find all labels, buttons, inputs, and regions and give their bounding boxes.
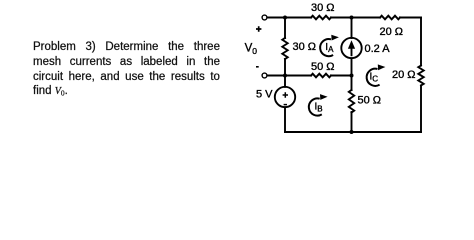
wire current source bottom lead: [351, 58, 353, 75]
svg-text:20 Ω: 20 Ω: [392, 69, 416, 81]
terminal Vo minus: [262, 73, 267, 78]
terminal Vo plus: [262, 15, 267, 20]
svg-text:0.2 A: 0.2 A: [365, 43, 391, 55]
svg-text:IC: IC: [370, 71, 379, 83]
problem statement text: [33, 41, 220, 100]
wire middle branch lower upper lead: [351, 76, 353, 91]
svg-text:30 Ω: 30 Ω: [293, 41, 317, 53]
svg-text:V0: V0: [245, 43, 258, 56]
svg-text:30 Ω: 30 Ω: [311, 2, 335, 14]
wire left branch upper: [284, 18, 286, 39]
mesh current IB arrow: [309, 94, 328, 115]
wire current source top lead: [351, 18, 353, 39]
resistor 30ohm top horizontal: [311, 16, 331, 20]
label 5V source plus: [283, 92, 288, 97]
svg-text:IA: IA: [325, 42, 334, 54]
node junction top-left: [283, 16, 287, 20]
wire top rail middle segment: [331, 17, 380, 19]
svg-text:IB: IB: [315, 102, 323, 114]
node junction bottom-middle: [350, 130, 354, 134]
label minus terminal: [256, 66, 259, 68]
current source I1 0.2A circle: [341, 38, 361, 58]
wire 5V source top lead: [284, 76, 286, 87]
wire right branch lower: [420, 86, 422, 133]
svg-text:50 Ω: 50 Ω: [311, 61, 335, 73]
label 5V source minus: [284, 104, 287, 106]
current source arrow: [348, 40, 355, 56]
resistor 20ohm top horizontal: [380, 16, 400, 20]
wire top rail left segment: [268, 17, 312, 19]
wire middle branch bottom lead: [351, 112, 353, 132]
wire middle rail left segment: [268, 75, 312, 77]
voltage source V1 5V circle: [275, 87, 295, 107]
wire right branch upper: [420, 18, 422, 66]
resistor 50ohm middle horizontal: [311, 74, 331, 78]
resistor 20ohm vertical right: [418, 66, 423, 86]
node junction mid-middle: [350, 74, 354, 78]
resistor 30ohm vertical left: [282, 38, 287, 59]
mesh current IC arrow: [367, 64, 386, 85]
wire top rail right segment: [400, 17, 421, 19]
resistor 50ohm vertical middle: [349, 90, 354, 113]
wire left branch to middle rail: [284, 59, 286, 76]
svg-text:50 Ω: 50 Ω: [358, 95, 382, 107]
wire 5V source bottom lead: [284, 107, 286, 132]
node junction top-middle: [350, 16, 354, 20]
svg-text:20 Ω: 20 Ω: [380, 26, 404, 38]
svg-text:5 V: 5 V: [256, 89, 273, 101]
node junction mid-left: [283, 74, 287, 78]
label plus terminal: [256, 26, 261, 31]
mesh current IA arrow: [320, 35, 339, 56]
wire middle rail right segment: [331, 75, 352, 77]
wire bottom rail: [285, 131, 421, 133]
